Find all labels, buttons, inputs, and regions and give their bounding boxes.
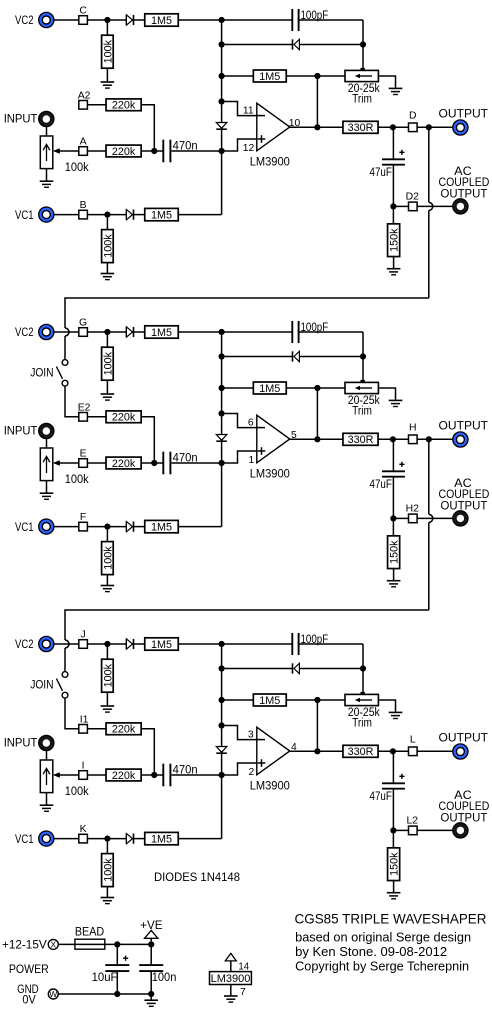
svg-text:100n: 100n: [152, 972, 177, 984]
wire loop horizontal: [65, 610, 429, 640]
wire join to pad: [65, 386, 79, 417]
svg-text:A2: A2: [78, 90, 91, 101]
wire pad to AC jack: [417, 517, 453, 519]
svg-text:3: 3: [248, 729, 254, 740]
capacitor 470n: [163, 764, 170, 787]
svg-text:100k: 100k: [65, 474, 89, 486]
svg-text:D: D: [409, 111, 417, 122]
svg-text:JOIN: JOIN: [30, 680, 53, 692]
diode D2a (1N4148): [126, 327, 133, 337]
wire to 47uF: [392, 439, 394, 470]
wire stub to inverting input: [222, 414, 257, 428]
pad I1: [79, 725, 88, 734]
svg-text:1M5: 1M5: [151, 834, 172, 846]
wire 220k upper to mix node: [141, 417, 154, 463]
svg-text:330R: 330R: [348, 434, 374, 446]
ferrite bead: [75, 939, 105, 949]
capacitor 100n: [139, 965, 163, 971]
pad L: [409, 747, 418, 756]
junction (47uF tap): [390, 748, 396, 754]
svg-text:X: X: [50, 940, 56, 950]
wire pad E to 220k: [87, 462, 106, 464]
svg-text:47uF: 47uF: [370, 479, 392, 491]
svg-text:Trim: Trim: [352, 718, 372, 730]
wire trim to ground: [378, 388, 395, 400]
wire hop over VC2 wire: [65, 328, 69, 336]
wire VC2 jack to pad G: [54, 331, 79, 333]
jack VC1 (section 3): [39, 831, 54, 846]
resistor 220k (lower): [106, 145, 141, 158]
wire corner down: [362, 332, 364, 357]
wire 470n to bus: [171, 150, 221, 152]
pad H2: [409, 514, 418, 523]
junction (mix node): [151, 148, 157, 154]
ground (150k): [387, 581, 401, 587]
wire bus to feedback diode: [222, 356, 293, 358]
wire pad A2 to 220k: [87, 104, 106, 106]
svg-text:H2: H2: [406, 503, 420, 514]
resistor 330R: [343, 433, 378, 446]
wire X to bead: [58, 943, 75, 945]
junction: [104, 212, 110, 218]
svg-text:150k: 150k: [389, 228, 401, 252]
resistor 100k (VC1 pull-down): [102, 542, 115, 575]
pad E: [79, 459, 88, 468]
wire 47uF to D2 row: [392, 790, 394, 831]
ground (150k): [387, 269, 401, 275]
jack OUTPUT (section 2): [453, 432, 468, 447]
capacitor 100pF: [292, 9, 298, 31]
wiper wire with arrow: [53, 772, 79, 777]
svg-text:6: 6: [248, 417, 254, 428]
svg-text:J: J: [80, 629, 85, 640]
wire diode to 1M5: [134, 19, 145, 21]
pad G: [79, 328, 88, 337]
wire rail to 100n: [150, 944, 152, 964]
jack VC2 (section 3): [39, 636, 54, 651]
svg-text:10uF: 10uF: [92, 972, 118, 984]
resistor 150k: [388, 224, 401, 257]
wire 220k upper to mix node: [141, 729, 154, 775]
wire bead to +VE rail: [105, 943, 151, 945]
svg-text:JOIN: JOIN: [30, 368, 53, 380]
diode D1a (1N4148): [126, 15, 133, 25]
resistor 150k: [388, 848, 401, 881]
diode D3b feedback (1N4148): [293, 663, 300, 673]
resistor 100k (VC2 pull-down): [102, 35, 115, 68]
wire 220k upper to mix node: [141, 105, 154, 151]
junction (pin stub): [219, 98, 225, 104]
junction on bus (diode row): [219, 665, 225, 671]
capacitor 470n: [163, 140, 170, 163]
svg-text:E2: E2: [78, 402, 91, 413]
svg-text:2: 2: [248, 767, 254, 778]
wire bus to 100pF: [222, 19, 292, 21]
junction (47uF tap): [390, 436, 396, 442]
junction on bus (1M5 row): [219, 385, 225, 391]
ground (150k): [387, 893, 401, 899]
svg-text:VC2: VC2: [15, 639, 34, 651]
wire pad C to diode: [87, 19, 126, 21]
junction: [104, 641, 110, 647]
wire trim to ground: [378, 76, 395, 88]
wire diode to 1M5: [134, 526, 145, 528]
svg-text:100k: 100k: [102, 234, 114, 258]
switch JOIN (lower contact): [62, 380, 68, 386]
svg-text:POWER: POWER: [9, 964, 49, 976]
capacitor 47uF: [382, 783, 405, 788]
junction (mix node): [151, 460, 157, 466]
junction (feedback node): [314, 385, 320, 391]
polarity +: [399, 774, 404, 779]
wire hop over AC out wire: [429, 202, 433, 210]
wire op-amp output: [290, 126, 343, 128]
ground (100k VC2): [101, 82, 115, 88]
wire to pad L2: [393, 829, 408, 831]
junction on bus (diode row): [219, 353, 225, 359]
junction (feedback node): [314, 73, 320, 79]
svg-text:A: A: [80, 136, 87, 147]
op-amp U1a LM3900: [256, 103, 290, 151]
resistor 220k (upper): [106, 99, 141, 112]
pad A: [79, 147, 88, 156]
trimmer 20-25k: [345, 68, 378, 82]
ground (trim): [389, 400, 403, 406]
junction (pin stub): [219, 722, 225, 728]
ground (trim): [389, 88, 403, 94]
wire 1M5 to bus: [178, 214, 221, 216]
junction on bus (diode row): [219, 41, 225, 47]
jack VC1 (section 2): [39, 519, 54, 534]
junction (AC out node): [390, 203, 396, 209]
polarity +: [399, 150, 404, 155]
svg-text:BEAD: BEAD: [75, 927, 104, 939]
wire pad G to diode: [87, 331, 126, 333]
wire 470n to bus: [171, 774, 221, 776]
svg-text:INPUT: INPUT: [4, 114, 38, 126]
wire feedback diode to corner: [299, 356, 363, 358]
wire trim to ground: [378, 700, 395, 712]
svg-text:LM3900: LM3900: [250, 468, 290, 480]
jack INPUT (section 2): [39, 423, 54, 438]
switch JOIN (upper contact): [62, 360, 68, 366]
svg-text:OUTPUT: OUTPUT: [439, 106, 489, 120]
resistor 1M5 (input bottom): [145, 208, 179, 221]
wire 220k to junction: [141, 462, 154, 464]
wire 1M5 to bus: [178, 19, 221, 21]
wire stub to inverting input: [222, 102, 257, 116]
svg-text:DIODES 1N4148: DIODES 1N4148: [154, 872, 240, 884]
wire pad J to diode: [87, 643, 126, 645]
junction on bus (1M5 row): [219, 73, 225, 79]
wire bus to 100pF: [222, 331, 292, 333]
wire 1M5 to bus: [178, 838, 221, 840]
diode D3d (1N4148): [126, 834, 133, 844]
resistor 330R: [343, 745, 378, 758]
junction (10uF bottom): [114, 991, 120, 997]
wire bus to feedback 1M5: [222, 75, 254, 77]
IC power: LM3900: [210, 953, 252, 996]
diode D2b feedback (1N4148): [293, 351, 300, 361]
wire diode to 1M5: [134, 838, 145, 840]
pad E2: [79, 413, 88, 422]
wire 100k to ground: [106, 380, 108, 394]
svg-text:C: C: [79, 5, 87, 16]
svg-text:1M5: 1M5: [151, 15, 172, 27]
resistor 220k (upper): [106, 411, 141, 424]
wire to power ground: [150, 994, 152, 1000]
capacitor 47uF: [382, 471, 405, 476]
wire junction to 100k (VC1): [106, 839, 108, 854]
wire 47uF to D2 row: [392, 166, 394, 207]
wire feedback diode to corner: [299, 668, 363, 670]
wire feedback 1M5 to trim: [286, 75, 345, 77]
wire pot to ground: [46, 169, 48, 182]
wire corner down: [362, 20, 364, 45]
jack INPUT (section 1): [39, 111, 54, 126]
trimmer 20-25k: [345, 380, 378, 394]
svg-text:F: F: [80, 512, 86, 523]
wire VC1 jack to pad B: [54, 214, 79, 216]
ground (trim): [389, 712, 403, 718]
svg-text:VC1: VC1: [15, 210, 34, 222]
jack VC1 (section 1): [39, 207, 54, 222]
wire feedback diode to corner: [299, 44, 363, 46]
diode D3a (1N4148): [126, 639, 133, 649]
svg-text:VC2: VC2: [15, 15, 34, 27]
ground (pot): [40, 181, 54, 187]
wire 330R to pad: [378, 126, 409, 128]
wire pad to output jack: [417, 438, 453, 440]
wire junction to 100k: [106, 644, 108, 659]
op-amp U1c LM3900: [256, 727, 290, 775]
jack AC COUPLED OUTPUT (section 1): [453, 199, 468, 214]
wire to 150k: [392, 206, 394, 224]
wire bus to VC1 row: [221, 463, 223, 527]
wire 330R to pad: [378, 750, 409, 752]
wire 220k to junction: [141, 774, 154, 776]
wire 100n to 0V rail: [150, 972, 152, 994]
wire to 150k: [392, 830, 394, 848]
resistor 100k (VC2 pull-down): [102, 347, 115, 380]
resistor 100k (VC1 pull-down): [102, 854, 115, 887]
svg-text:7: 7: [240, 987, 246, 998]
svg-text:B: B: [80, 200, 87, 211]
wire mix node to 470n: [154, 150, 162, 152]
potentiometer 100k (input level): [40, 760, 53, 793]
wire hop over AC out wire: [429, 514, 433, 522]
resistor 330R: [343, 121, 378, 134]
svg-text:220k: 220k: [112, 770, 136, 782]
wire pad F to diode: [87, 526, 126, 528]
svg-text:VC2: VC2: [15, 327, 34, 339]
pad B: [79, 210, 88, 219]
pad D: [409, 123, 418, 132]
junction (100n): [148, 941, 154, 947]
switch JOIN (upper contact): [62, 672, 68, 678]
svg-text:220k: 220k: [112, 100, 136, 112]
wire 1M5 to bus: [178, 331, 221, 333]
switch JOIN (lower contact): [62, 692, 68, 698]
wire VC2 jack to pad C: [54, 19, 79, 21]
svg-text:G: G: [79, 317, 87, 328]
wire bus vertical upper: [221, 644, 223, 747]
junction (mix node): [151, 772, 157, 778]
wire bus vertical upper: [221, 20, 223, 123]
ground (100k VC2): [101, 706, 115, 712]
svg-text:+12-15V: +12-15V: [2, 940, 47, 952]
wire mix node to 470n: [154, 774, 162, 776]
junction (trim top): [360, 41, 366, 47]
switch JOIN lever: [56, 367, 62, 379]
wire stub to non-inverting input: [222, 451, 257, 463]
svg-text:100k: 100k: [65, 162, 89, 174]
polarity +: [399, 462, 404, 467]
resistor 1M5 (input bottom): [145, 520, 179, 533]
svg-text:100k: 100k: [102, 351, 114, 375]
svg-text:1: 1: [248, 455, 254, 466]
junction (trim top): [360, 353, 366, 359]
wire diode to 1M5: [134, 331, 145, 333]
junction (100n bottom): [148, 991, 154, 997]
wire pot to ground: [46, 793, 48, 806]
ground (100k VC1): [101, 898, 115, 904]
terminal X (+12-15V): [48, 939, 58, 949]
jack VC2 (section 1): [39, 12, 54, 27]
ground (LM3900 pin 7): [224, 996, 238, 1002]
svg-text:14: 14: [238, 961, 249, 972]
svg-text:11: 11: [243, 105, 254, 116]
wiper wire with arrow: [53, 148, 79, 153]
wire 10uF to 0V rail: [116, 972, 118, 994]
resistor 100k (VC2 pull-down): [102, 659, 115, 692]
pad D2: [409, 202, 418, 211]
svg-text:1M5: 1M5: [151, 522, 172, 534]
junction (AC out node): [390, 515, 396, 521]
svg-text:OUTPUT: OUTPUT: [441, 498, 488, 512]
ground (pot): [40, 493, 54, 499]
wire bus to feedback 1M5: [222, 387, 254, 389]
svg-text:I: I: [82, 760, 85, 771]
pad J: [79, 640, 88, 649]
wire pot to ground: [46, 481, 48, 494]
svg-text:CGS85 TRIPLE WAVESHAPER: CGS85 TRIPLE WAVESHAPER: [295, 911, 487, 927]
junction (input node): [219, 148, 225, 154]
wire down to trim wiper: [362, 669, 364, 695]
junction: [104, 836, 110, 842]
wire join to pad: [65, 698, 79, 729]
capacitor 10uF: [105, 965, 129, 971]
wire 470n to bus: [171, 462, 221, 464]
wire diode to 1M5: [134, 643, 145, 645]
resistor 1M5 (input top): [145, 326, 179, 339]
junction on bus: [219, 17, 225, 23]
wire 100pF to corner: [300, 643, 364, 645]
wire loop down (right): [428, 439, 430, 514]
svg-text:LM3900: LM3900: [250, 156, 290, 168]
resistor 1M5 (input top): [145, 14, 179, 27]
wire pad to output jack: [417, 750, 453, 752]
wire to 47uF: [392, 751, 394, 782]
wire loop down (right lower): [428, 522, 430, 610]
svg-text:0V: 0V: [22, 994, 36, 1006]
junction on bus: [219, 641, 225, 647]
wire 100k to ground: [106, 692, 108, 706]
svg-text:OUTPUT: OUTPUT: [441, 810, 488, 824]
wire op-amp output: [290, 438, 343, 440]
junction (output/feedback): [314, 124, 320, 130]
wire junction to 100k: [106, 332, 108, 347]
svg-text:L2: L2: [407, 815, 419, 826]
resistor 1M5 (input bottom): [145, 832, 179, 845]
resistor 1M5 (feedback): [253, 694, 286, 707]
wire feedback 1M5 to trim: [286, 699, 345, 701]
resistor 1M5 (feedback): [253, 70, 286, 83]
wire jack to pot: [46, 751, 48, 760]
svg-text:220k: 220k: [112, 724, 136, 736]
wire 150k to ground: [393, 257, 395, 269]
svg-text:150k: 150k: [389, 852, 401, 876]
diode D1d (1N4148): [126, 210, 133, 220]
svg-text:H: H: [409, 423, 417, 434]
svg-text:W: W: [49, 989, 57, 999]
pad C: [79, 16, 88, 25]
wire loop to JOIN: [64, 648, 66, 672]
wire bus to VC1 row: [221, 151, 223, 215]
wire pad A to 220k: [87, 150, 106, 152]
svg-text:INPUT: INPUT: [4, 738, 38, 750]
wire jack to pot: [46, 127, 48, 136]
wire bus vertical upper: [221, 332, 223, 435]
svg-text:150k: 150k: [389, 540, 401, 564]
wire to 150k: [392, 518, 394, 536]
svg-text:OUTPUT: OUTPUT: [439, 730, 489, 744]
pad I: [79, 771, 88, 780]
pad L2: [409, 826, 418, 835]
op-amp U1b LM3900: [256, 415, 290, 463]
svg-text:330R: 330R: [348, 122, 374, 134]
diode D1c (series, 1N4148): [216, 123, 227, 130]
capacitor 100pF: [292, 321, 298, 343]
svg-text:VC1: VC1: [15, 834, 34, 846]
ground (100k VC1): [101, 586, 115, 592]
svg-text:1M5: 1M5: [259, 383, 280, 395]
wire bus to VC1 row: [221, 775, 223, 839]
resistor 220k (lower): [106, 457, 141, 470]
svg-text:100k: 100k: [102, 546, 114, 570]
svg-text:Trim: Trim: [352, 94, 372, 106]
svg-text:D2: D2: [406, 191, 420, 202]
+VE arrow: [145, 930, 158, 944]
svg-text:100k: 100k: [102, 39, 114, 63]
wire bus to feedback diode: [222, 44, 293, 46]
wire down to trim wiper: [362, 357, 364, 383]
junction (input node): [219, 460, 225, 466]
diode D1b feedback (1N4148): [293, 39, 300, 49]
diode D2d (1N4148): [126, 522, 133, 532]
wire junction to 100k (VC1): [106, 527, 108, 542]
wire hop over VC2 wire: [65, 640, 69, 648]
wire pad to AC jack: [417, 829, 453, 831]
wire mix node to 470n: [154, 462, 162, 464]
svg-text:LM3900: LM3900: [211, 973, 251, 985]
wire to 47uF: [392, 127, 394, 158]
wire 47uF to D2 row: [392, 478, 394, 519]
wire pad B to diode: [87, 214, 126, 216]
svg-text:1M5: 1M5: [151, 639, 172, 651]
svg-text:12: 12: [243, 143, 255, 154]
junction (feedback node): [314, 697, 320, 703]
